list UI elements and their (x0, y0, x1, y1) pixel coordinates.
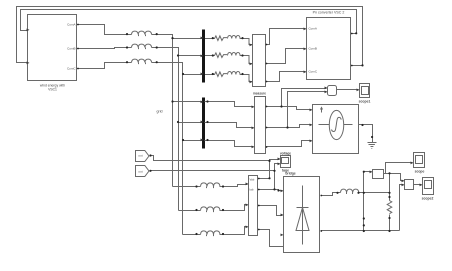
RLC branch R1 L4 (205, 36, 253, 45)
three-phase measurement M2 (255, 97, 266, 154)
svg-text:out: out (138, 154, 142, 158)
bus bar B2 (202, 98, 205, 149)
inductor L10 (338, 189, 360, 194)
wire bus B2 to M2 in2 (205, 123, 254, 128)
wire phase A bottom to L7 (173, 186, 197, 188)
inductor L7 (197, 183, 223, 188)
ground GND1 (368, 143, 377, 149)
wire MX1 to scope S3 (337, 89, 359, 91)
svg-text:voltage: voltage (280, 152, 291, 156)
scope S3 (360, 84, 370, 98)
wire G1 to SV in1 (150, 156, 270, 161)
diode bridge REC (284, 177, 320, 253)
wire IM out to scope S2 (414, 184, 422, 186)
svg-text:scope: scope (415, 170, 425, 174)
three-phase measurement M1 (253, 35, 266, 87)
wire L10 to node DC+ (359, 192, 390, 194)
svg-text:VSC1: VSC1 (48, 88, 57, 92)
wire M3 out1 to node V1 (258, 178, 270, 180)
inductor L3 (127, 59, 157, 64)
wire VM out to scope S1 (386, 163, 413, 174)
wire DC+ to voltage measurement VM (364, 172, 372, 193)
current measurement IM (405, 180, 414, 190)
wire node V2 up to scope SV in2 (275, 164, 280, 190)
wire phase C bottom to L9 (183, 234, 197, 236)
AC source SRC (313, 105, 359, 154)
wire L8 to M3 in2 (223, 205, 248, 211)
wire REC out+ through L10 (321, 193, 338, 196)
wire SRC out to ground (359, 125, 373, 143)
wire M3 out2 to rectifier in1 (258, 190, 283, 191)
wire phase B to bus B2 (179, 122, 203, 124)
wire phase A vertical (157, 35, 173, 187)
svg-text:bridge: bridge (285, 172, 295, 176)
wire M2 out3 to SRC in3 (266, 141, 312, 147)
svg-text:ComA: ComA (67, 23, 75, 27)
wire phase C to bus B2 (183, 140, 203, 142)
wire M3 out3 to rectifier in2 (258, 206, 283, 216)
scope S1 (414, 153, 425, 168)
svg-text:ComC: ComC (67, 67, 76, 71)
wire M1 out1 to VSC2 in1 (266, 29, 306, 45)
wire M1 out3 to VSC2 in3 (266, 72, 306, 82)
wire bus B2 to M2 in3 (205, 141, 254, 147)
wire G2 to SV in2 (150, 170, 275, 172)
wire VM minus to bottom rail (363, 193, 365, 231)
svg-text:ComB: ComB (309, 47, 317, 51)
mux MX1 (328, 86, 337, 96)
inductor L8 (197, 207, 223, 212)
input arrowheads (27, 28, 423, 237)
wire U1 out1 to L1 (77, 25, 127, 35)
from tag G2 (136, 166, 150, 177)
svg-text:ComB: ComB (67, 47, 75, 51)
from tag G1 (136, 151, 150, 162)
wire L7 to M3 in1 (223, 185, 248, 187)
svg-text:ComA: ComA (309, 27, 317, 31)
bus bar B1 (202, 30, 205, 83)
svg-text:scope1: scope1 (359, 100, 371, 104)
wire phase C vertical (157, 63, 183, 235)
svg-text:out: out (138, 170, 142, 174)
wire tap phase b to mux MX1 (288, 92, 327, 128)
wire U1 out2 to L2 (77, 48, 127, 49)
wire REC out- bottom rail (321, 230, 400, 232)
wire phase A to bus B2 (173, 101, 203, 103)
resistor RD load (387, 174, 392, 231)
wire bus B2 to M2 in1 (205, 102, 254, 107)
scope S2 (423, 178, 434, 195)
scope SV voltage scope (281, 156, 291, 168)
wire M2 out2 to SRC in2 (266, 125, 312, 128)
wire phase B vertical (157, 48, 179, 211)
voltage measurement VM (373, 170, 384, 179)
wire feedback loop inner (VSC2 out1 to U1 in1) (21, 10, 357, 34)
wire phase B bottom to L8 (179, 210, 197, 212)
subsystem U1 wind energy with VSC1 (28, 15, 77, 81)
wire phase C to bus B1 (183, 74, 203, 76)
svg-text:Pn converter VSC 2: Pn converter VSC 2 (313, 11, 345, 15)
wire M3 out4 to rectifier in3 (258, 230, 284, 247)
wire bottom rail up to IM minus (400, 185, 404, 231)
three-phase measurement M3 (249, 176, 258, 236)
svg-text:scope2: scope2 (422, 197, 434, 201)
RLC branch R3 L6 (205, 72, 253, 82)
svg-text:grid: grid (157, 110, 163, 114)
wire phase A to bus B1 (173, 38, 203, 40)
wire M1 out2 to VSC2 in2 (266, 49, 306, 64)
svg-text:Vab: Vab (250, 178, 255, 182)
wire phase B to bus B1 (179, 55, 203, 57)
wire VM out right (384, 174, 404, 181)
subsystem U2 Pn converter VSC 2 (307, 18, 351, 80)
wire U1 out3 to L3 (77, 63, 127, 69)
RLC branch R2 L5 (205, 53, 253, 64)
svg-text:Iab: Iab (250, 188, 254, 192)
wire node V1 up to scope SV in1 (270, 160, 280, 179)
wire M2 out1 to SRC in1 (266, 107, 312, 110)
svg-text:measure: measure (253, 92, 266, 96)
wire feedback loop outer (VSC2 out2 to U1 in2) (17, 7, 363, 66)
wire L9 to M3 in3 (223, 227, 248, 235)
inductor L1 (127, 31, 157, 36)
inductor L2 (127, 44, 157, 49)
svg-text:ComC: ComC (309, 70, 318, 74)
inductor L9 (197, 231, 223, 236)
wire tap phase a to mux MX1 (282, 89, 327, 107)
